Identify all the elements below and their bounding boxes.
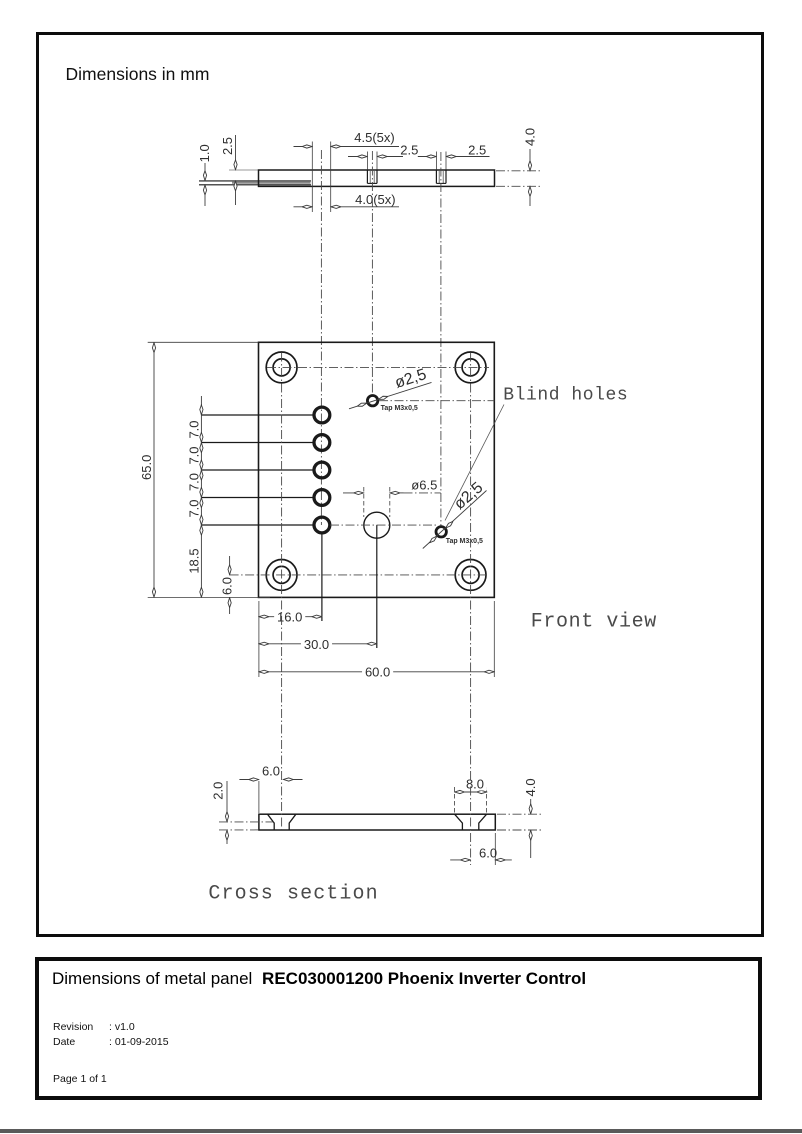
svg-text:Blind holes: Blind holes	[503, 386, 628, 406]
svg-text:4.0: 4.0	[523, 778, 538, 796]
svg-text:7.0: 7.0	[187, 499, 202, 517]
svg-text:4.0(5x): 4.0(5x)	[355, 192, 395, 207]
svg-text:60.0: 60.0	[365, 665, 390, 680]
svg-text:4.5(5x): 4.5(5x)	[354, 130, 394, 145]
svg-text:ø2,5: ø2,5	[451, 479, 486, 513]
svg-text:Tap M3x0,5: Tap M3x0,5	[381, 405, 418, 412]
svg-text:2.5: 2.5	[220, 137, 235, 155]
svg-text:65.0: 65.0	[139, 455, 154, 480]
svg-text:2.0: 2.0	[211, 782, 226, 800]
svg-text:8.0: 8.0	[466, 777, 484, 792]
svg-text:2.5: 2.5	[400, 143, 418, 158]
svg-text:ø6.5: ø6.5	[411, 478, 437, 493]
svg-text:1.0: 1.0	[197, 144, 212, 162]
svg-text:16.0: 16.0	[277, 609, 302, 624]
svg-text:6.0: 6.0	[220, 577, 235, 595]
svg-text:Tap M3x0,5: Tap M3x0,5	[446, 538, 483, 545]
svg-text:6.0: 6.0	[262, 764, 280, 779]
svg-text:Cross section: Cross section	[208, 883, 378, 906]
svg-text:2.5: 2.5	[468, 143, 486, 158]
svg-text:6.0: 6.0	[479, 846, 497, 861]
svg-text:Front view: Front view	[531, 611, 657, 634]
svg-text:ø2,5: ø2,5	[393, 366, 429, 392]
svg-text:18.5: 18.5	[187, 548, 202, 573]
svg-text:7.0: 7.0	[187, 420, 202, 438]
svg-text:7.0: 7.0	[187, 473, 202, 491]
svg-text:30.0: 30.0	[304, 637, 329, 652]
svg-text:7.0: 7.0	[187, 446, 202, 464]
svg-text:4.0: 4.0	[523, 128, 538, 146]
